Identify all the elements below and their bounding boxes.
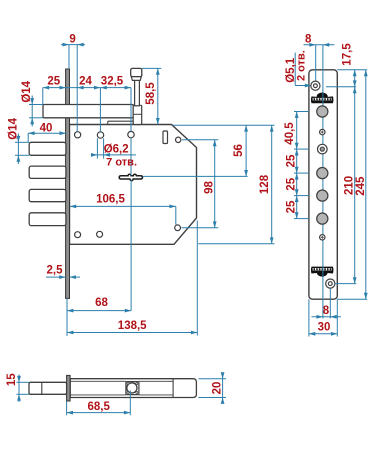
dimension 8 (bottom): [312, 316, 342, 318]
keyhole (double-bit key slot): [119, 174, 142, 180]
deadbolt 2: [29, 166, 66, 178]
bolt hole 1: [317, 106, 328, 117]
case hole B1 (right top): [176, 137, 181, 142]
bolt hole 4: [317, 213, 328, 224]
deadbolt 3: [29, 189, 66, 201]
svg-text:17,5: 17,5: [342, 43, 354, 66]
svg-text:30: 30: [318, 321, 331, 333]
case hole A1 (top row): [75, 132, 81, 138]
faceplate cross-section: [67, 375, 71, 401]
svg-text:8: 8: [323, 305, 330, 317]
dimension 40: [28, 132, 66, 134]
faceplate center line: [322, 45, 324, 279]
extension line faceplate top: [337, 69, 367, 71]
extension line top screw to 210: [326, 86, 356, 88]
faceplate hole extension lines: [294, 111, 309, 113]
countersunk screw hole top: [311, 81, 320, 90]
faceplate edge-on (gray bar): [66, 69, 70, 298]
extension cylinder center: [129, 391, 131, 416]
dimension 9 (top): [61, 44, 85, 46]
brand logo top: [311, 93, 334, 104]
dimension 138,5: [67, 332, 197, 334]
extension line keyhole center: [143, 175, 248, 177]
leader Ø5,1 2 holes: [294, 53, 296, 86]
faceplate side ext lines for 30: [308, 299, 310, 336]
svg-text:68: 68: [95, 297, 108, 309]
dimension 210: [354, 87, 356, 284]
svg-text:128: 128: [259, 174, 271, 194]
svg-text:106,5: 106,5: [96, 193, 125, 205]
svg-text:9: 9: [69, 33, 75, 45]
dimension 58,5: [157, 68, 159, 124]
svg-text:Ø14: Ø14: [7, 117, 19, 139]
top screw hole ext line: [315, 45, 317, 89]
dimension 245: [365, 70, 367, 299]
faceplate front outline: [309, 70, 337, 299]
svg-text:15: 15: [6, 373, 18, 386]
extension line faceplate bottom: [66, 298, 68, 336]
latch slot: [163, 131, 168, 144]
top horizontal bolt bar: [43, 105, 133, 118]
dimension Ø14 top bar: [31, 96, 33, 127]
dimension 20: [222, 375, 224, 402]
svg-text:56: 56: [233, 144, 245, 157]
deadbolt 1 (Ø14): [29, 142, 66, 155]
center line ext to 8: [322, 279, 324, 319]
case hole B2 (right bottom): [175, 225, 181, 231]
svg-text:245: 245: [355, 176, 367, 196]
deadbolt bottom view: [29, 382, 67, 394]
svg-text:68,5: 68,5: [88, 401, 111, 413]
svg-text:210: 210: [343, 176, 355, 195]
svg-text:25: 25: [47, 75, 60, 87]
extension line faceplate bottom right: [337, 298, 367, 300]
dimension 56: [245, 125, 247, 176]
svg-text:2 отв.: 2 отв.: [295, 50, 307, 81]
cylinder circle: [127, 383, 137, 393]
svg-text:25: 25: [285, 200, 297, 213]
dimension 8 (top): [304, 44, 335, 46]
svg-text:25: 25: [285, 177, 297, 190]
bolt hole 2: [317, 168, 328, 179]
svg-text:2,5: 2,5: [47, 264, 64, 276]
svg-text:Ø6,2: Ø6,2: [104, 143, 129, 155]
small screw 2: [320, 235, 325, 240]
dimension 30: [309, 333, 337, 335]
extension faceplate bottom tip: [66, 401, 68, 415]
case divider line: [172, 379, 174, 398]
case hole C2 (bottom row): [97, 231, 103, 237]
cylinder post cap: [131, 68, 142, 76]
cylinder post foot: [133, 105, 142, 124]
dimension 128 (main view): [198, 243, 274, 245]
svg-text:8: 8: [305, 33, 312, 45]
svg-text:32,5: 32,5: [101, 75, 124, 87]
svg-text:20: 20: [211, 382, 223, 395]
dimension 68: [67, 310, 131, 312]
lock case bottom view outline: [70, 379, 196, 398]
dimension 106,5: [70, 205, 176, 207]
dimension Ø14 deadbolt: [17, 134, 19, 165]
lock case body outline: [70, 125, 197, 245]
cylinder plate screws: [127, 383, 129, 385]
cylinder post stem: [135, 80, 140, 106]
lever plate on case top: [107, 121, 109, 124]
case hole C1 (bottom row): [75, 232, 81, 238]
svg-text:24: 24: [79, 75, 92, 87]
cylinder post taper: [131, 77, 141, 81]
countersunk screw hole bottom: [326, 279, 335, 288]
svg-text:40: 40: [40, 122, 53, 134]
brand logo bottom: [311, 267, 334, 277]
extension line bottom screw to 210: [335, 283, 357, 285]
bolt hole 3: [317, 190, 328, 201]
cylinder mounting plate: [126, 382, 139, 395]
dimension 15: [18, 375, 20, 403]
svg-text:98: 98: [203, 181, 215, 194]
small screw 1: [320, 129, 325, 134]
extension line case right edge bottom: [196, 221, 198, 336]
svg-text:58,5: 58,5: [145, 82, 157, 105]
dimension 17,5: [354, 70, 356, 87]
svg-text:25: 25: [285, 154, 297, 167]
svg-text:Ø14: Ø14: [21, 80, 33, 102]
deadbolt 4: [29, 213, 66, 226]
dimension chain 40,5 / 25 / 25 / 25: [296, 112, 298, 219]
dimension line 25-24-32,5: [43, 87, 131, 89]
svg-text:138,5: 138,5: [118, 320, 147, 332]
case hole A3 (top row): [128, 131, 134, 137]
leader Ø6,2 7 holes: [96, 138, 98, 158]
key cylinder hole: [318, 144, 328, 154]
dimension 2,5: [46, 276, 66, 278]
case inner wall lines: [70, 380, 126, 382]
case hole A2 (top row): [97, 132, 103, 138]
extension line case top right: [173, 124, 275, 126]
extension line keyhole to 68: [130, 180, 132, 311]
bottom screw center ext line: [329, 289, 331, 319]
svg-text:7 отв.: 7 отв.: [106, 156, 137, 168]
svg-text:40,5: 40,5: [284, 122, 296, 145]
dimension 68,5: [67, 412, 131, 414]
dimension 98: [182, 139, 218, 141]
